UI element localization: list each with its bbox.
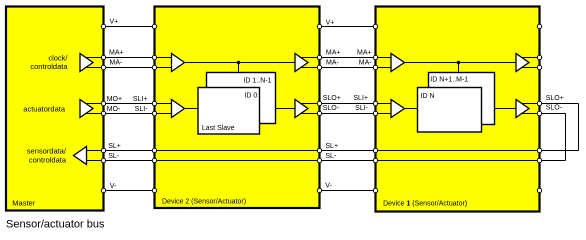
wire slave out to output buffer Device 2 [276,108,296,110]
buffer Device 2 MA input [172,54,185,72]
svg-text:Sensor/actuator bus: Sensor/actuator bus [6,218,105,230]
buffer Device 2 SLO output [295,100,308,118]
wire MA+ into Device 1 input buffer [376,57,392,59]
svg-text:SLI-: SLI- [355,105,369,112]
svg-text:V-: V- [110,183,117,190]
wire SLI+ into Device 1 input buffer [376,103,392,105]
wire SLO- from Device 1 output buffer to edge node [520,113,540,115]
svg-text:MO-: MO- [107,106,121,113]
svg-text:SLI-: SLI- [135,106,149,113]
svg-text:SLO-: SLO- [323,105,340,112]
buffer Device 2 MA output [295,54,308,72]
svg-text:SLI+: SLI+ [133,96,148,103]
wire SLO+/SLI+ gap2 [320,103,376,105]
wire MA- from master buffer to edge node [84,67,104,69]
wire SLO- from Device 2 output buffer to edge node [299,113,320,115]
slave box ID N (Device 1, front) [418,88,482,133]
wire MA+ from master buffer to edge node [84,57,104,59]
buffer Device 1 MA input [391,54,405,72]
wire slave out to output buffer Device 1 [495,108,517,110]
svg-text:ID 0: ID 0 [244,93,257,100]
svg-text:MA-: MA- [326,60,340,67]
buffer Device 1 MA output [516,54,529,72]
slave box ID 0 Last Slave (Device 2, front) [198,88,260,135]
svg-text:ID 1..N-1: ID 1..N-1 [243,78,271,85]
wire MA- gap2 [320,67,376,69]
wire SLI- into Device 2 input buffer [155,113,172,115]
svg-text:Device 1 (Sensor/Actuator): Device 1 (Sensor/Actuator) [383,200,467,207]
block Master [6,7,104,211]
svg-text:SLO+: SLO+ [546,95,564,102]
svg-text:controldata: controldata [29,155,67,164]
wire MA- gap1 [104,67,155,69]
svg-text:SL-: SL- [108,153,120,160]
svg-text:V+: V+ [110,19,119,26]
svg-text:SL+: SL+ [108,143,121,150]
wire MO into slave box ID 0 [185,108,198,110]
wire MA+ from Device 2 output buffer to edge node [299,57,320,59]
wire V- gap1 [104,190,155,192]
svg-text:MA+: MA+ [109,49,124,56]
wire SLI- into Device 1 input buffer [376,113,392,115]
svg-text:actuatordata: actuatordata [23,104,66,113]
svg-text:SL-: SL- [325,153,337,160]
wire MA tap down to slave box Device 1 [458,63,460,73]
wire MA- into Device 1 input buffer [376,67,392,69]
wire SLO+ loopback horizontal [540,103,579,105]
nodes on Device 2 left edge (V+,MA+,MA-,SLI+,SLI-,SL+,SL-,V-) [152,24,156,28]
nodes on Device 1 right edge (V+,MA+,MA-,SLO+,SLO-,SL+,SL-,V-) [537,24,541,28]
wire SLO+ from Device 1 output buffer to edge node [520,103,540,105]
wire MO into slave box ID N [405,108,418,110]
wire SLO-/SLI- gap2 [320,113,376,115]
svg-text:controldata: controldata [30,62,68,71]
nodes on Device 2 right edge (V+,MA+,MA-,SLO+,SLO-,SL+,SL-,V-) [317,24,321,28]
block Device 2 (Sensor/Actuator) [155,7,320,209]
svg-text:V+: V+ [326,20,335,27]
svg-text:V-: V- [325,183,332,190]
wire SLO+ from Device 2 output buffer to edge node [299,103,320,105]
wire MA internal Device 1 [405,62,517,64]
svg-text:SLI+: SLI+ [353,95,368,102]
wire V- gap2 [320,190,376,192]
wire MO- from master buffer to edge node [84,113,104,115]
wire SLO+ loopback vertical to SL+ [578,104,580,151]
junction on MA line Device 2 [237,61,240,64]
svg-text:SLO-: SLO- [546,105,563,112]
nodes on Device 1 left edge (V+,MA+,MA-,SLI+,SLI-,SL+,SL-,V-) [373,24,377,28]
wire SLO- loopback vertical to SL- [565,114,567,161]
wire MA+ gap1 [104,57,155,59]
svg-text:ID N+1..M-1: ID N+1..M-1 [430,77,468,84]
wire SL+ bus line [87,150,579,152]
wire MA internal Device 2 [185,62,295,64]
buffer Device 2 MO input [172,100,185,118]
wire SL- bus line [87,160,566,162]
svg-text:Last Slave: Last Slave [202,125,235,132]
wire V+ gap1 [104,26,155,28]
wire MA+ into Device 2 input buffer [155,57,172,59]
junction on MA line Device 1 [457,61,460,64]
wire MO+/SLI+ gap1 [104,103,155,105]
slave box ID 1..N-1 (Device 2, back) [207,73,276,124]
svg-text:Master: Master [12,198,35,207]
svg-text:MA-: MA- [359,60,373,67]
wire MO+ from master buffer to edge node [84,103,104,105]
wire MO-/SLI- gap1 [104,113,155,115]
svg-text:MO+: MO+ [107,96,122,103]
svg-text:MA-: MA- [110,60,124,67]
svg-text:Device 2 (Sensor/Actuator): Device 2 (Sensor/Actuator) [162,198,246,205]
svg-text:ID N: ID N [421,93,435,100]
wire SLI+ into Device 2 input buffer [155,103,172,105]
svg-text:MA+: MA+ [326,49,341,56]
wire MA- into Device 2 input buffer [155,67,172,69]
buffer Device 1 SLO output [516,100,529,118]
buffer master MO driver [80,100,93,118]
wire MA+ from Device 1 output buffer to edge node [520,57,540,59]
svg-text:SL+: SL+ [325,143,338,150]
wire MA+ gap2 [320,57,376,59]
wire MA- from Device 1 output buffer to edge node [520,67,540,69]
wire MA tap down to slave box Device 2 [238,63,240,73]
buffer master SL receiver [74,147,87,165]
buffer master MA driver [80,54,93,72]
wire SLO- loopback horizontal [540,113,566,115]
block Device 1 (Sensor/Actuator) [376,7,540,212]
slave box ID N+1..M-1 (Device 1, back) [429,73,495,125]
svg-text:SLO+: SLO+ [323,95,341,102]
buffer Device 1 MO input [391,100,405,118]
wire MA- from Device 2 output buffer to edge node [299,67,320,69]
wire V+ gap2 [320,26,376,28]
svg-text:MA+: MA+ [357,49,372,56]
nodes on Master right edge (V+,MA+,MA-,MO+,MO-,SL+,SL-,V-) [101,24,105,28]
